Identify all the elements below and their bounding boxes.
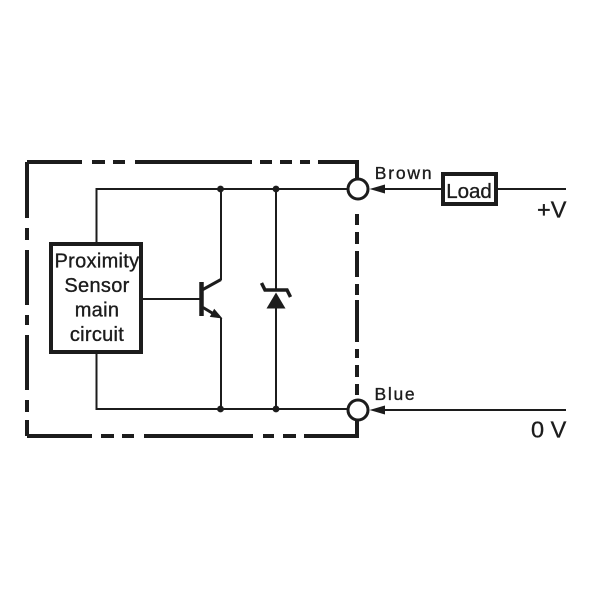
svg-text:Sensor: Sensor bbox=[64, 275, 129, 297]
svg-text:main: main bbox=[75, 300, 120, 322]
svg-text:0 V: 0 V bbox=[531, 417, 567, 443]
svg-text:Load: Load bbox=[446, 180, 492, 203]
svg-text:Blue: Blue bbox=[375, 384, 417, 404]
svg-text:circuit: circuit bbox=[70, 324, 124, 346]
svg-text:Proximity: Proximity bbox=[55, 251, 140, 273]
svg-text:Brown: Brown bbox=[375, 163, 434, 183]
svg-text:+V: +V bbox=[537, 197, 567, 223]
